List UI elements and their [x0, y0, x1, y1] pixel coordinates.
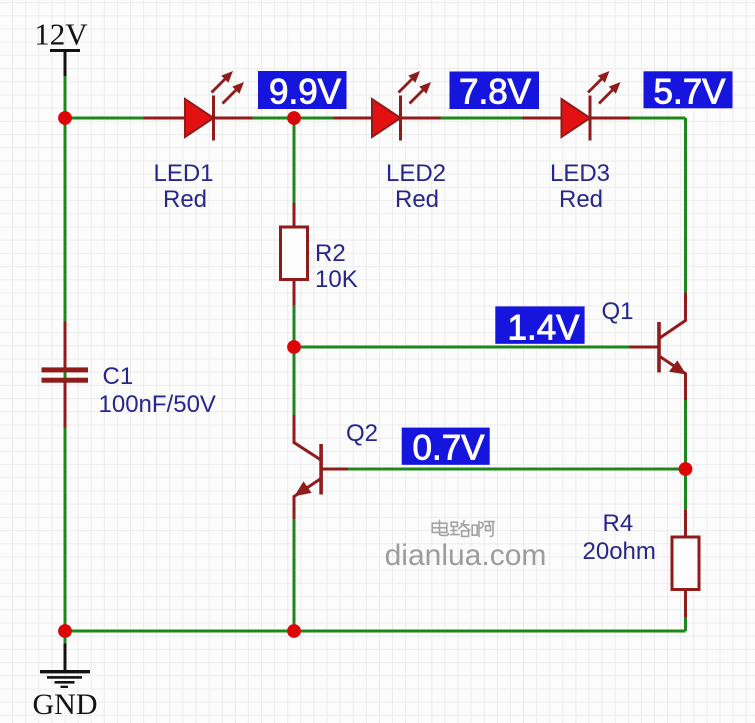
svg-text:C1: C1	[103, 363, 134, 390]
svg-text:20ohm: 20ohm	[583, 538, 656, 565]
svg-text:R2: R2	[315, 240, 346, 267]
svg-text:10K: 10K	[315, 266, 358, 293]
svg-text:Red: Red	[395, 186, 439, 213]
svg-text:GND: GND	[33, 688, 98, 721]
svg-text:5.7V: 5.7V	[654, 72, 727, 111]
svg-text:Red: Red	[163, 186, 207, 213]
svg-text:LED2: LED2	[386, 160, 446, 187]
svg-text:7.8V: 7.8V	[459, 73, 532, 112]
svg-text:100nF/50V: 100nF/50V	[99, 391, 216, 418]
svg-text:LED3: LED3	[550, 160, 610, 187]
svg-text:dianlua.com: dianlua.com	[385, 539, 547, 572]
svg-text:Q1: Q1	[602, 298, 634, 325]
svg-text:12V: 12V	[34, 17, 88, 52]
svg-text:R4: R4	[603, 510, 634, 537]
svg-text:LED1: LED1	[153, 160, 213, 187]
svg-text:1.4V: 1.4V	[508, 309, 581, 348]
svg-text:Red: Red	[559, 186, 603, 213]
svg-text:Q2: Q2	[346, 420, 378, 447]
svg-text:9.9V: 9.9V	[269, 72, 342, 111]
svg-text:0.7V: 0.7V	[413, 429, 486, 468]
